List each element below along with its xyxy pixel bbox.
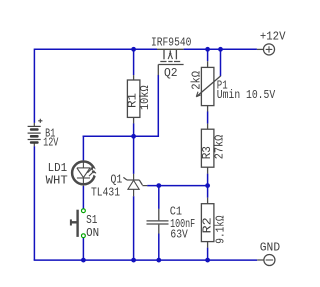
resistor R3 (201, 124, 214, 174)
wire top rail right (Q2 drain to +12V terminal) (184, 48, 257, 50)
wire bottom rail (34, 259, 258, 261)
transistor Q2 IRF9540 p-mosfet (157, 49, 184, 75)
wire C1 top drop (158, 186, 160, 209)
wire P1 top drop (207, 49, 209, 61)
wire LED drop (82, 136, 84, 161)
wire node to R2 top (207, 186, 209, 198)
wire left rail upper (battery + up) (33, 49, 35, 123)
svg-text:27kΩ: 27kΩ (213, 135, 227, 160)
svg-text:2kΩ: 2kΩ (189, 71, 203, 90)
battery plate pill 1 (30, 128, 39, 131)
wire R3 bottom to node (207, 174, 209, 186)
node junction bottom TL431 (131, 258, 136, 263)
svg-text:12V: 12V (43, 136, 59, 150)
terminal +12V (257, 44, 275, 55)
wire wiper drop (220, 49, 222, 76)
pin marker switch top (82, 209, 86, 213)
LED LD1 (72, 160, 97, 186)
shunt regulator Q1 TL431 (123, 174, 147, 196)
wire node to LED (left segment) (83, 135, 134, 137)
wire left rail lower (battery - down) (33, 146, 35, 260)
node junction C1 top (156, 183, 161, 188)
svg-text:GND: GND (260, 240, 280, 254)
battery plate pill 2 (30, 135, 39, 138)
svg-text:TL431: TL431 (91, 185, 120, 199)
wire R1 top drop (133, 49, 135, 75)
wire TL431 anode to bottom rail (133, 196, 135, 260)
battery B1 (28, 119, 43, 147)
node junction top P1 (205, 47, 210, 52)
svg-text:IRF9540: IRF9540 (151, 36, 191, 50)
wire switch to bottom rail (82, 238, 84, 261)
node junction bottom C1 (156, 258, 161, 263)
node junction bottom switch (81, 258, 86, 263)
svg-text:10kΩ: 10kΩ (138, 85, 152, 110)
svg-text:Umin 10.5V: Umin 10.5V (217, 88, 276, 102)
svg-text:63V: 63V (170, 228, 188, 242)
wire LED to switch (82, 186, 84, 209)
wire node to TL431 cathode (133, 136, 135, 174)
node junction bottom R2 (205, 258, 210, 263)
svg-text:ON: ON (86, 226, 99, 240)
wire ref net horizontal (147, 185, 207, 187)
svg-text:S1: S1 (86, 213, 97, 227)
node junction R3/R2 (205, 183, 210, 188)
resistor R1 (127, 75, 139, 123)
wire P1 to R3 (207, 111, 209, 123)
wire R1 bottom to node (133, 123, 135, 136)
capacitor C1 (147, 209, 169, 234)
wire gate vertical (157, 75, 159, 136)
svg-text:Q2: Q2 (164, 66, 178, 80)
svg-text:WHT: WHT (46, 174, 68, 188)
wire C1 bottom (158, 234, 160, 261)
battery plate pill 3 (30, 141, 39, 144)
node junction gate/R1/LED (131, 134, 136, 139)
resistor R2 (201, 198, 214, 248)
wire top rail left (+battery to Q2 source) (34, 48, 157, 50)
svg-text:+12V: +12V (260, 30, 286, 44)
pin marker switch bottom (82, 234, 86, 238)
wire R2 bottom to rail (207, 248, 209, 261)
terminal GND (257, 254, 275, 265)
node junction top wiper (218, 47, 223, 52)
svg-text:Q1: Q1 (111, 172, 123, 186)
wire gate horizontal to node (134, 135, 159, 137)
switch S1 (71, 210, 78, 237)
node junction top R1 (131, 47, 136, 52)
svg-text:9.1kΩ: 9.1kΩ (213, 216, 227, 244)
potentiometer P1 (196, 61, 220, 111)
